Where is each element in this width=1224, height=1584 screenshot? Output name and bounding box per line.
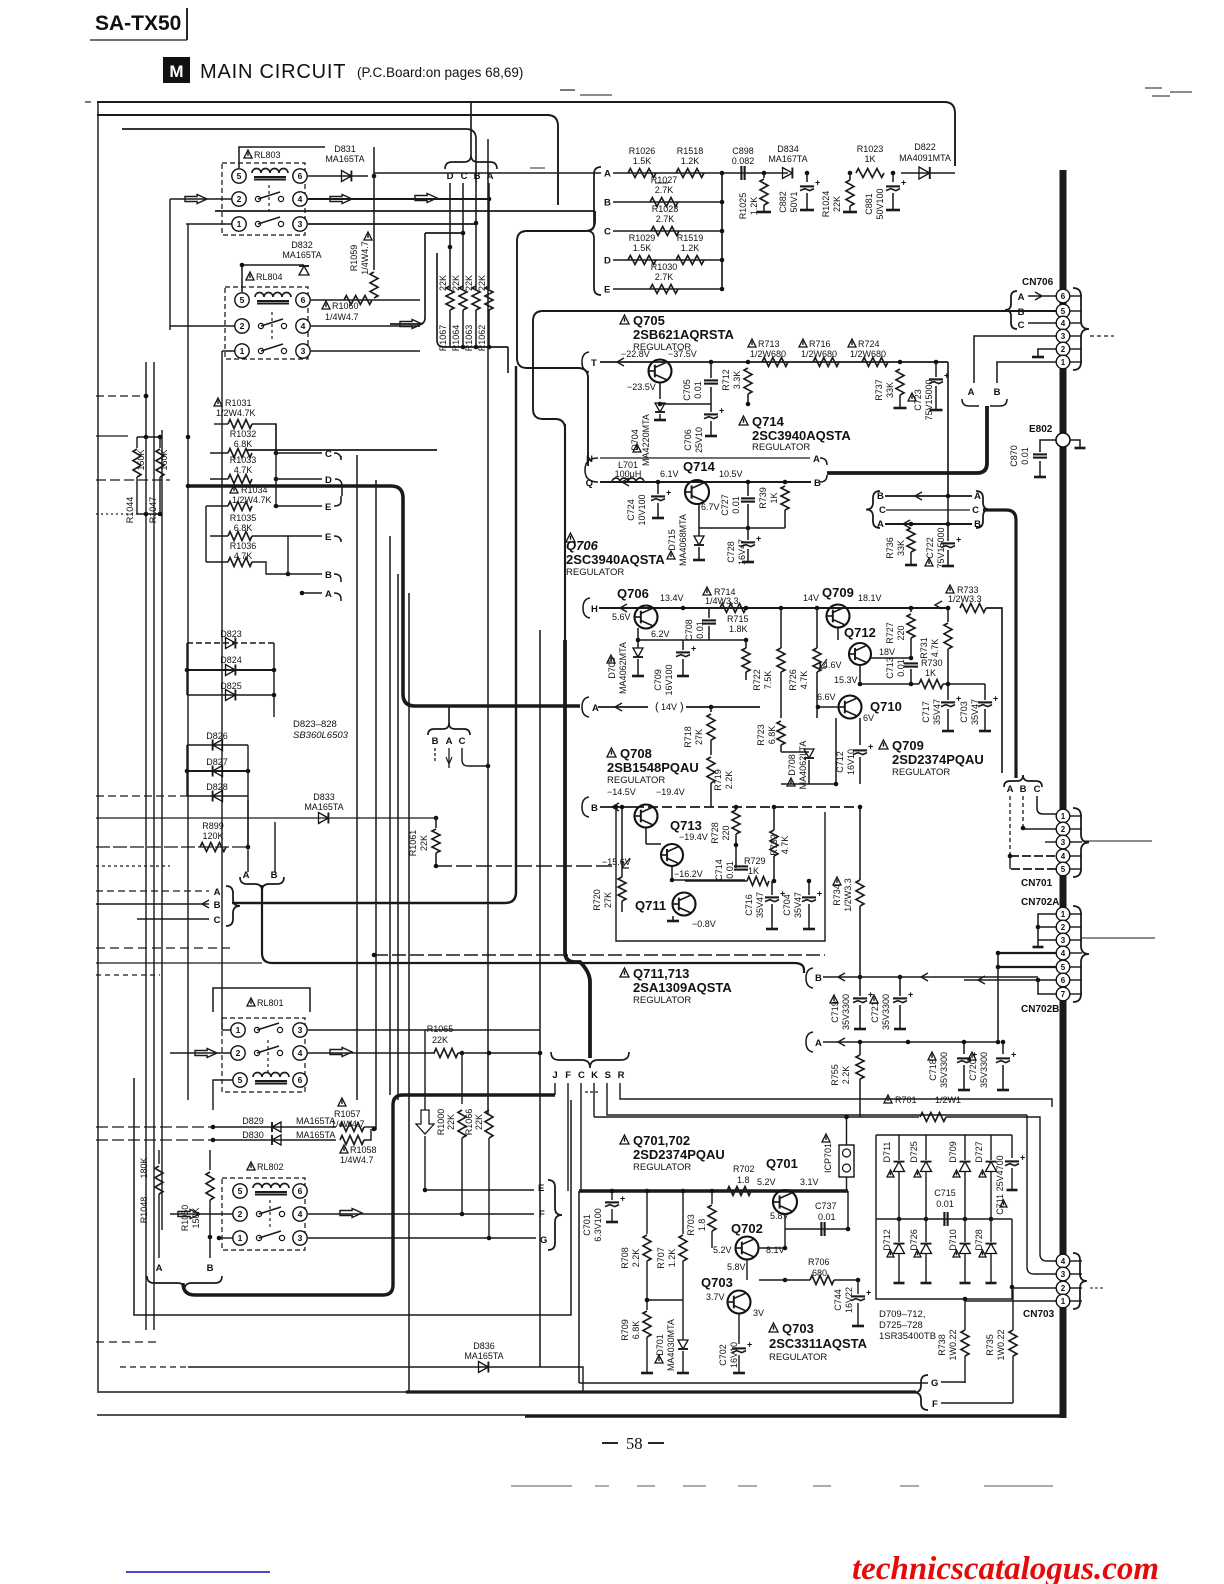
connector CN701 pin 4 xyxy=(1056,849,1070,863)
wire A row 14V xyxy=(598,706,648,708)
svg-text:R1047: R1047 xyxy=(148,497,158,524)
svg-text:0.01: 0.01 xyxy=(693,381,703,399)
wire RL804 row2 xyxy=(170,325,235,327)
relay RL801 outer box xyxy=(213,988,310,1012)
svg-text:R730: R730 xyxy=(921,658,943,668)
connector CN703 pin 3 xyxy=(1056,1267,1070,1281)
svg-text:Q701,702: Q701,702 xyxy=(633,1133,690,1148)
svg-text:C: C xyxy=(214,915,221,926)
svg-text:22K: 22K xyxy=(432,1035,448,1045)
node J F C K S R brace xyxy=(551,1052,629,1068)
resistor R1031 xyxy=(214,398,222,406)
svg-text:R715: R715 xyxy=(727,614,749,624)
svg-text:D827: D827 xyxy=(206,757,228,767)
svg-text:5: 5 xyxy=(238,1186,243,1196)
svg-text:MA165TA: MA165TA xyxy=(296,1116,335,1126)
wire thick bottom rail 1 xyxy=(97,1391,406,1393)
wire dashed bus 955 xyxy=(374,954,825,956)
svg-text:C898: C898 xyxy=(732,146,754,156)
wire A-B row xyxy=(885,523,972,525)
svg-text:technicscatalogus.com: technicscatalogus.com xyxy=(852,1551,1159,1584)
svg-text:R1060: R1060 xyxy=(332,301,359,311)
svg-text:MA4062LTA: MA4062LTA xyxy=(798,741,808,790)
node B bracket Q708 xyxy=(582,797,589,817)
svg-text:1.8: 1.8 xyxy=(697,1219,707,1232)
svg-text:D831: D831 xyxy=(334,144,356,154)
wire center vertical x565 xyxy=(564,424,566,700)
svg-text:27K: 27K xyxy=(603,892,613,908)
relay RL801 pin 1 xyxy=(231,1023,245,1037)
svg-text:RL801: RL801 xyxy=(257,998,284,1008)
svg-text:Q: Q xyxy=(586,478,593,489)
svg-text:2.7K: 2.7K xyxy=(655,272,674,282)
svg-text:REGULATOR: REGULATOR xyxy=(633,995,691,1006)
wire RL804 pin5 top xyxy=(242,265,304,292)
svg-text:A: A xyxy=(974,491,981,502)
svg-text:C: C xyxy=(325,449,332,460)
wire RL803 pin5 top xyxy=(239,147,325,168)
svg-text:3.3K: 3.3K xyxy=(732,371,742,390)
wire S column xyxy=(607,1083,1027,1115)
relay RL803 body xyxy=(222,163,305,235)
svg-text:R727: R727 xyxy=(885,622,895,644)
relay RL803 contact 1-3 xyxy=(255,221,260,226)
wire CN706 pin6 A xyxy=(1028,295,1056,297)
wire row E1 xyxy=(276,505,322,507)
wire A row dashed xyxy=(96,890,209,892)
svg-text:R734: R734 xyxy=(832,884,842,906)
svg-text:2SB621AQRSTA: 2SB621AQRSTA xyxy=(633,327,735,342)
node A C B right bracket xyxy=(976,491,990,528)
svg-text:C: C xyxy=(604,227,611,238)
svg-text:R1044: R1044 xyxy=(125,497,135,524)
relay RL801 contact 1-3 xyxy=(254,1027,259,1032)
diode D728 xyxy=(979,1250,986,1257)
svg-text:D727: D727 xyxy=(974,1141,984,1163)
wire D831 junction to A-row xyxy=(374,172,601,174)
relay RL802 label xyxy=(247,1162,255,1170)
svg-text:+: + xyxy=(993,693,998,703)
svg-text:−16.2V: −16.2V xyxy=(674,869,703,879)
relay RL801 coil xyxy=(253,1073,289,1078)
svg-text:SA-TX50: SA-TX50 xyxy=(95,12,181,35)
svg-text:3: 3 xyxy=(298,1233,303,1243)
svg-text:2: 2 xyxy=(240,321,245,331)
svg-text:B: B xyxy=(432,736,439,747)
capacitor C711 xyxy=(1000,1200,1007,1207)
svg-text:R731: R731 xyxy=(919,637,929,659)
svg-text:A: A xyxy=(815,1038,822,1049)
svg-text:6.7V: 6.7V xyxy=(701,502,720,512)
svg-text:75V15000: 75V15000 xyxy=(936,527,946,568)
wire B col xyxy=(1022,796,1024,828)
svg-text:D710: D710 xyxy=(948,1229,958,1251)
svg-text:15.3V: 15.3V xyxy=(834,675,858,685)
svg-text:R1057: R1057 xyxy=(334,1109,361,1119)
relay RL804 pin 2 xyxy=(235,319,249,333)
svg-text:B: B xyxy=(974,519,981,530)
svg-text:REGULATOR: REGULATOR xyxy=(633,1162,691,1173)
svg-text:R1050: R1050 xyxy=(180,1205,190,1232)
svg-text:1: 1 xyxy=(1061,358,1066,367)
svg-text:REGULATOR: REGULATOR xyxy=(892,767,950,778)
wire Q708 block box xyxy=(616,807,825,941)
svg-text:B: B xyxy=(814,478,821,489)
svg-text:1K: 1K xyxy=(925,668,936,678)
wire N row xyxy=(600,457,810,459)
svg-text:R1061: R1061 xyxy=(408,830,418,857)
svg-text:4: 4 xyxy=(298,1209,303,1219)
svg-text:R1029: R1029 xyxy=(629,233,656,243)
svg-text:+: + xyxy=(868,741,873,751)
svg-text:6.8K: 6.8K xyxy=(631,1321,641,1340)
wire T output down xyxy=(947,362,949,497)
wire RL801 row 1-3 xyxy=(222,1029,231,1031)
svg-text:R1024: R1024 xyxy=(821,191,831,218)
wire B column xyxy=(475,183,477,289)
diode D708 xyxy=(787,778,795,786)
svg-text:0.01: 0.01 xyxy=(731,496,741,514)
wire ladder left verticals xyxy=(205,506,207,562)
wire left rail 1 xyxy=(145,362,147,1330)
regulator Q703 label xyxy=(769,1323,778,1332)
svg-text:C703: C703 xyxy=(959,701,969,723)
connector CN706 pin 4 xyxy=(1056,316,1070,330)
svg-text:1: 1 xyxy=(1061,1297,1066,1306)
wire RL804 row1 xyxy=(222,350,235,352)
svg-text:1/2W3.3: 1/2W3.3 xyxy=(948,594,982,604)
svg-text:5: 5 xyxy=(1061,865,1066,874)
ground E802 right xyxy=(1070,440,1080,447)
svg-text:D712: D712 xyxy=(882,1229,892,1251)
svg-text:D709–712,: D709–712, xyxy=(879,1309,925,1320)
regulator Q706 label xyxy=(566,533,575,542)
wire A B brace to bus 963 xyxy=(262,885,804,973)
svg-text:+: + xyxy=(901,177,906,187)
svg-text:D708: D708 xyxy=(787,754,797,776)
wire snake2 CN706 B xyxy=(533,311,1056,470)
svg-text:RL803: RL803 xyxy=(254,150,281,160)
ground CN706 pin2 xyxy=(1038,349,1056,356)
svg-text:2: 2 xyxy=(236,1048,241,1058)
blue underline xyxy=(126,1571,270,1573)
svg-text:CN701: CN701 xyxy=(1021,878,1053,889)
svg-text:R1065: R1065 xyxy=(427,1024,454,1034)
wire diode matrix top feeds xyxy=(876,1134,1012,1136)
svg-text:6.2V: 6.2V xyxy=(651,629,670,639)
svg-text:18V: 18V xyxy=(879,647,895,657)
wire diode matrix bus xyxy=(876,1218,1012,1220)
node B A C brace xyxy=(428,723,470,735)
svg-text:+: + xyxy=(815,177,820,187)
connector CN702 pin 6 xyxy=(1056,973,1070,987)
wire CN702 pin7 elbow xyxy=(1038,980,1056,994)
svg-text:R713: R713 xyxy=(758,339,780,349)
wire Q701 block bottom xyxy=(579,1382,928,1384)
transistor Q705 xyxy=(649,360,672,383)
svg-text:R706: R706 xyxy=(808,1257,830,1267)
resistor R716 xyxy=(799,339,807,347)
node G F bracket xyxy=(914,1375,928,1410)
svg-text:C704: C704 xyxy=(782,894,792,916)
svg-text:2: 2 xyxy=(1061,1284,1066,1293)
connector CN703 pin 1 xyxy=(1056,1294,1070,1308)
svg-text:A: A xyxy=(446,736,453,747)
relay RL802 pin 2 xyxy=(233,1207,247,1221)
svg-text:5.8V: 5.8V xyxy=(727,1262,746,1272)
svg-text:1W0.22: 1W0.22 xyxy=(996,1329,1006,1360)
svg-text:−19.4V: −19.4V xyxy=(656,787,685,797)
wire RL802 rows xyxy=(170,1213,233,1215)
svg-text:MA4030MTA: MA4030MTA xyxy=(666,1319,676,1371)
svg-text:A: A xyxy=(604,169,611,180)
svg-text:A: A xyxy=(325,589,332,600)
svg-text:2: 2 xyxy=(238,1209,243,1219)
svg-text:C870: C870 xyxy=(1009,445,1019,467)
svg-text:3: 3 xyxy=(1061,838,1066,847)
node N Q bracket xyxy=(585,458,598,482)
relay RL801 pin 4 xyxy=(293,1046,307,1060)
svg-text:C715: C715 xyxy=(934,1188,956,1198)
svg-text:REGULATOR: REGULATOR xyxy=(769,1352,827,1363)
svg-text:3: 3 xyxy=(301,346,306,356)
svg-text:0.01: 0.01 xyxy=(725,861,735,879)
wire E row xyxy=(425,1189,534,1191)
svg-text:Q714: Q714 xyxy=(683,459,716,474)
svg-text:MAIN CIRCUIT: MAIN CIRCUIT xyxy=(200,61,346,83)
svg-text:6: 6 xyxy=(298,171,303,181)
diode D701 xyxy=(655,1355,663,1363)
svg-text:RL804: RL804 xyxy=(256,272,283,282)
svg-text:R: R xyxy=(618,1070,625,1081)
wire Q701-Q702-Q703 links xyxy=(784,1214,786,1248)
relay RL804 pin 3 xyxy=(296,344,310,358)
relay RL803 pin 3 xyxy=(293,217,307,231)
svg-text:Q701: Q701 xyxy=(766,1156,798,1171)
connector CN702 bracket right xyxy=(1073,906,1089,1002)
svg-text:CN702B: CN702B xyxy=(1021,1004,1059,1015)
wire J column xyxy=(554,1083,556,1095)
svg-text:R1032: R1032 xyxy=(230,429,257,439)
svg-text:B: B xyxy=(994,387,1001,398)
svg-text:D709: D709 xyxy=(948,1141,958,1163)
svg-text:C706: C706 xyxy=(683,429,693,451)
connector CN706 pin 6 xyxy=(1056,289,1070,303)
svg-text:4.7K: 4.7K xyxy=(930,639,940,658)
svg-text:C716: C716 xyxy=(744,894,754,916)
svg-text:R1025: R1025 xyxy=(738,193,748,220)
svg-text:6.1V: 6.1V xyxy=(660,469,679,479)
wire center vertical x409 xyxy=(408,593,410,1392)
svg-text:4: 4 xyxy=(298,194,303,204)
svg-text:R899: R899 xyxy=(202,821,224,831)
svg-text:35V47: 35V47 xyxy=(793,892,803,918)
svg-text:MA167TA: MA167TA xyxy=(768,154,807,164)
svg-text:B: B xyxy=(1018,307,1025,318)
svg-text:CN706: CN706 xyxy=(1022,277,1054,288)
wire Q701 thick rail xyxy=(579,1189,848,1192)
wire Q row xyxy=(600,481,811,483)
relay RL804 pin 4 xyxy=(296,319,310,333)
relay RL802 pin 1 xyxy=(233,1231,247,1245)
resistor R1034 xyxy=(230,485,238,493)
svg-text:5.2V: 5.2V xyxy=(713,1245,732,1255)
svg-text:R729: R729 xyxy=(744,856,766,866)
wire A col dashed xyxy=(1009,796,1011,856)
wire row B2 xyxy=(288,573,322,575)
connector CN701 bracket right xyxy=(1073,808,1089,877)
svg-text:58: 58 xyxy=(626,1434,643,1453)
svg-text:4: 4 xyxy=(1061,852,1066,861)
wire left dashes xyxy=(96,395,146,397)
svg-text:6.8K: 6.8K xyxy=(767,726,777,745)
svg-text:C712: C712 xyxy=(835,751,845,773)
svg-text:6V: 6V xyxy=(863,713,874,723)
svg-text:R739: R739 xyxy=(758,487,768,509)
svg-text:REGULATOR: REGULATOR xyxy=(607,775,665,786)
svg-text:R1027: R1027 xyxy=(651,175,678,185)
svg-text:2SD2374PQAU: 2SD2374PQAU xyxy=(633,1147,725,1162)
wire left margin lines xyxy=(96,947,230,949)
regulator Q711 713 label xyxy=(620,968,629,977)
wire thick bottom rail 2 xyxy=(97,1414,525,1416)
wire dashed bus 866 xyxy=(436,865,614,867)
svg-text:D826: D826 xyxy=(206,731,228,741)
wire CN701 right lines xyxy=(1082,840,1152,842)
relay RL803 contact 2-4 xyxy=(255,196,260,201)
wire R column xyxy=(620,1083,1052,1107)
svg-text:35V3300: 35V3300 xyxy=(979,1052,989,1088)
svg-text:R712: R712 xyxy=(721,369,731,391)
wire bottom dash row xyxy=(511,1485,572,1487)
svg-text:B: B xyxy=(271,870,278,881)
svg-text:R728: R728 xyxy=(710,822,720,844)
wire bus 866 xyxy=(96,865,170,867)
svg-text:R1518: R1518 xyxy=(677,146,704,156)
svg-text:C720: C720 xyxy=(968,1059,978,1081)
svg-text:C: C xyxy=(879,505,886,516)
svg-text:MA165TA: MA165TA xyxy=(325,154,364,164)
diode D727 xyxy=(990,1135,992,1160)
svg-text:C882: C882 xyxy=(778,191,788,213)
svg-text:E802: E802 xyxy=(1029,424,1053,435)
wire center vertical x488 long xyxy=(487,139,489,1115)
svg-text:R701: R701 xyxy=(895,1095,917,1105)
svg-text:2SA1309AQSTA: 2SA1309AQSTA xyxy=(633,980,732,995)
svg-text:R716: R716 xyxy=(809,339,831,349)
svg-text:D725: D725 xyxy=(909,1141,919,1163)
relay RL804 contact 2-4 xyxy=(258,323,263,328)
regulator Q701 702 label xyxy=(620,1135,629,1144)
wire row C1 xyxy=(276,452,322,454)
wire D826 box xyxy=(186,745,188,796)
svg-text:B: B xyxy=(877,491,884,502)
svg-text:180K: 180K xyxy=(139,1157,149,1178)
svg-text:2: 2 xyxy=(1061,825,1066,834)
svg-text:2.7K: 2.7K xyxy=(656,214,675,224)
resistor R1058 xyxy=(340,1145,348,1153)
svg-text:R738: R738 xyxy=(937,1334,947,1356)
relay RL803 pin 5 xyxy=(232,169,246,183)
svg-text:SB360L6503: SB360L6503 xyxy=(293,730,349,741)
svg-text:35V47: 35V47 xyxy=(932,699,942,725)
svg-text:R718: R718 xyxy=(683,726,693,748)
connector CN701 pin 5 xyxy=(1056,862,1070,876)
connector CN702 pin 1 xyxy=(1056,907,1070,921)
svg-text:Q713: Q713 xyxy=(670,818,702,833)
capacitor C718 xyxy=(928,1052,936,1060)
svg-text:(P.C.Board:on pages 68,69): (P.C.Board:on pages 68,69) xyxy=(357,65,523,80)
svg-text:1: 1 xyxy=(236,1025,241,1035)
svg-text:C722: C722 xyxy=(925,537,935,559)
wire top rail L2 xyxy=(97,115,558,205)
svg-text:G: G xyxy=(931,1378,938,1389)
svg-text:C: C xyxy=(972,505,979,516)
svg-text:B: B xyxy=(1020,784,1027,795)
relay RL802 contact 1-3 xyxy=(256,1235,261,1240)
svg-text:D823–828: D823–828 xyxy=(293,719,337,730)
connector CN706 bracket left xyxy=(1005,291,1017,329)
svg-text:Q703: Q703 xyxy=(701,1275,733,1290)
connector CN702 pin 7 xyxy=(1056,987,1070,1001)
svg-text:MA165TA: MA165TA xyxy=(464,1351,503,1361)
diode D710 xyxy=(953,1250,960,1257)
svg-text:Q709: Q709 xyxy=(892,738,924,753)
svg-text:2SC3940AQSTA: 2SC3940AQSTA xyxy=(752,428,851,443)
capacitor C708 sym xyxy=(708,608,710,618)
regulator Q709 label xyxy=(879,740,888,749)
svg-text:R1058: R1058 xyxy=(350,1145,377,1155)
svg-text:R735: R735 xyxy=(985,1334,995,1356)
svg-text:MA4068MTA: MA4068MTA xyxy=(678,514,688,566)
wire A B brace to thick wire xyxy=(827,406,987,473)
svg-text:C744: C744 xyxy=(833,1289,843,1311)
wire CN702 pin6 xyxy=(964,979,1056,981)
wire top rail L3 xyxy=(122,129,476,183)
wire CN706 pin5 B xyxy=(1028,310,1056,312)
svg-text:+: + xyxy=(1011,1049,1016,1059)
wire center vertical x390 xyxy=(389,536,391,1095)
connector CN701 pin 2 xyxy=(1056,822,1070,836)
wire CN702 right line xyxy=(1082,937,1155,939)
svg-text:Q711: Q711 xyxy=(635,898,666,913)
wire R733 down right xyxy=(986,608,1002,773)
wire bottom-left box xyxy=(134,1078,571,1315)
svg-text:75V15000: 75V15000 xyxy=(924,379,934,420)
relay RL801 contact 2-4 xyxy=(254,1050,259,1055)
connector CN702 pin 3 xyxy=(1056,933,1070,947)
relay RL803 label xyxy=(244,150,252,158)
svg-text:33K: 33K xyxy=(885,382,895,398)
resistor R714 xyxy=(703,587,711,595)
svg-text:R1030: R1030 xyxy=(651,262,678,272)
node T bracket xyxy=(582,352,589,372)
wire bottom dashes xyxy=(96,1341,160,1343)
node B row mid bracket xyxy=(806,968,813,988)
relay RL801 pin 6 xyxy=(293,1073,307,1087)
svg-text:M: M xyxy=(169,62,183,81)
regulator Q708 label xyxy=(607,748,616,757)
svg-text:C719: C719 xyxy=(830,1001,840,1023)
svg-text:50V1: 50V1 xyxy=(789,191,799,212)
svg-text:T: T xyxy=(591,358,597,369)
svg-text:14V: 14V xyxy=(661,702,677,712)
svg-text:R708: R708 xyxy=(620,1247,630,1269)
svg-text:5: 5 xyxy=(1061,307,1066,316)
svg-text:4.7K: 4.7K xyxy=(799,671,809,690)
svg-text:R1031: R1031 xyxy=(225,398,252,408)
wire left rail 4 xyxy=(169,199,171,330)
